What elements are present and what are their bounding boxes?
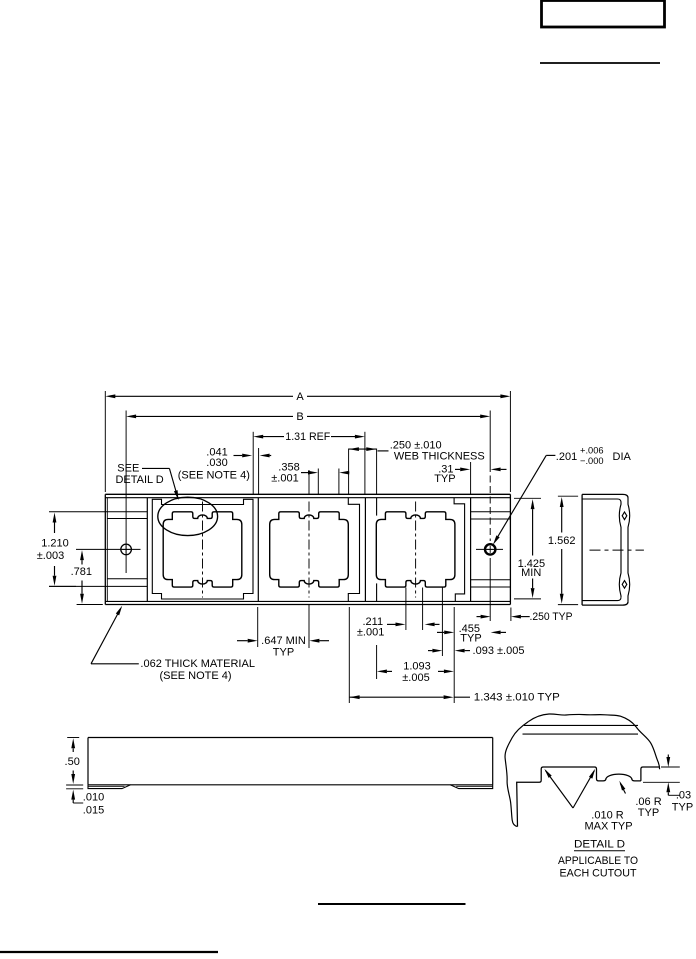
svg-text:.201: .201 bbox=[556, 451, 577, 463]
svg-text:TYP: TYP bbox=[638, 807, 659, 819]
svg-text:.781: .781 bbox=[71, 566, 92, 578]
svg-text:.093 ±.005: .093 ±.005 bbox=[473, 645, 525, 657]
svg-text:±.001: ±.001 bbox=[357, 626, 384, 638]
svg-text:WEB THICKNESS: WEB THICKNESS bbox=[394, 451, 485, 463]
svg-text:DETAIL D: DETAIL D bbox=[574, 839, 625, 851]
svg-text:−.000: −.000 bbox=[580, 456, 604, 466]
svg-text:.06 R: .06 R bbox=[635, 796, 661, 808]
svg-text:±.001: ±.001 bbox=[271, 472, 298, 484]
svg-text:1.093: 1.093 bbox=[403, 660, 431, 672]
svg-text:SEE: SEE bbox=[117, 463, 139, 475]
svg-text:TYP: TYP bbox=[672, 801, 693, 813]
svg-text:.015: .015 bbox=[83, 804, 104, 816]
svg-text:(SEE NOTE 4): (SEE NOTE 4) bbox=[159, 670, 231, 682]
svg-text:MIN: MIN bbox=[521, 567, 541, 579]
svg-text:.50: .50 bbox=[65, 756, 80, 768]
svg-text:.250 TYP: .250 TYP bbox=[530, 611, 573, 623]
svg-text:1.562: 1.562 bbox=[548, 535, 576, 547]
svg-text:.250 ±.010: .250 ±.010 bbox=[390, 439, 442, 451]
svg-text:.010: .010 bbox=[83, 791, 104, 803]
svg-text:EACH CUTOUT: EACH CUTOUT bbox=[560, 867, 637, 879]
svg-text:B: B bbox=[296, 411, 303, 423]
svg-text:.647 MIN: .647 MIN bbox=[261, 635, 306, 647]
svg-text:1.343 ±.010 TYP: 1.343 ±.010 TYP bbox=[474, 692, 560, 704]
svg-text:TYP: TYP bbox=[434, 473, 455, 485]
svg-text:1.210: 1.210 bbox=[41, 538, 69, 550]
svg-text:TYP: TYP bbox=[460, 633, 481, 645]
svg-text:DETAIL D: DETAIL D bbox=[115, 474, 163, 486]
svg-text:1.31 REF: 1.31 REF bbox=[285, 431, 330, 443]
svg-text:A: A bbox=[296, 391, 304, 403]
svg-text:(SEE NOTE 4): (SEE NOTE 4) bbox=[178, 470, 250, 482]
svg-text:±.005: ±.005 bbox=[402, 672, 429, 684]
svg-text:DIA: DIA bbox=[613, 451, 632, 463]
svg-text:+.006: +.006 bbox=[580, 446, 604, 456]
svg-text:TYP: TYP bbox=[273, 646, 294, 658]
svg-text:APPLICABLE TO: APPLICABLE TO bbox=[558, 855, 638, 867]
svg-text:±.003: ±.003 bbox=[37, 550, 64, 562]
svg-text:MAX TYP: MAX TYP bbox=[584, 820, 632, 832]
svg-text:.062 THICK MATERIAL: .062 THICK MATERIAL bbox=[140, 658, 255, 670]
svg-text:.03: .03 bbox=[676, 789, 691, 801]
svg-text:.030: .030 bbox=[206, 457, 227, 469]
